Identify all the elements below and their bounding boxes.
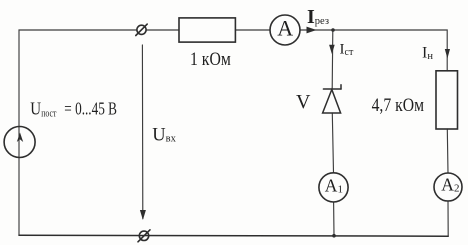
svg-text:А: А (277, 16, 293, 41)
wire: R1 to ammeter A (235, 29, 270, 31)
current arrow I_n head (445, 49, 450, 59)
wire: R2 to ammeter A2 (446, 129, 449, 173)
node N2 (bottom junction) (332, 234, 336, 238)
terminal X2 (bottom input) (138, 230, 150, 242)
wire top-left: source branch up to input terminal (19, 30, 137, 235)
svg-text:1 кОм: 1 кОм (190, 49, 231, 70)
source G1 (adjustable DC supply) (4, 127, 35, 158)
wire: zener to ammeter A1 (332, 113, 333, 173)
svg-text:= 0...45 В: = 0...45 В (64, 98, 117, 118)
label U_post = 0...45 V (30, 98, 117, 119)
wire: A1 to bottom node N2 (333, 202, 335, 236)
resistor R2 (4.7 kOhm load) (436, 71, 458, 129)
wire: A2 to bottom-right corner (447, 201, 449, 236)
resistor R1 (1 kOhm, series) (179, 18, 235, 42)
svg-text:А1: А1 (325, 176, 343, 196)
svg-text:Iн: Iн (422, 45, 433, 63)
svg-text:Iст: Iст (340, 42, 354, 59)
wire: node N1 to top-right corner and down to R2 (333, 30, 447, 71)
wire: ammeter A to node N1 with current arrow I_rez (300, 27, 333, 34)
svg-text:Iрез: Iрез (307, 6, 329, 28)
svg-text:пост: пост (41, 109, 56, 120)
ammeter A2 (434, 173, 462, 201)
measurement arrow U_vx (input voltage) (140, 45, 146, 220)
wire: terminal to resistor R1 (146, 29, 179, 31)
zener diode V (323, 85, 341, 113)
terminal X1 (top input) (136, 24, 147, 35)
svg-text:U: U (30, 98, 41, 118)
wire: bottom return rail (19, 234, 448, 237)
svg-text:V: V (296, 91, 311, 113)
wire + current arrow I_st: node N1 down to zener (329, 30, 335, 89)
ammeter A (270, 15, 300, 45)
svg-text:Uвх: Uвх (152, 126, 176, 146)
svg-text:А2: А2 (441, 175, 459, 195)
svg-text:4,7 кОм: 4,7 кОм (372, 95, 424, 116)
ammeter A1 (319, 173, 348, 202)
node N1 (top junction) (331, 28, 335, 32)
